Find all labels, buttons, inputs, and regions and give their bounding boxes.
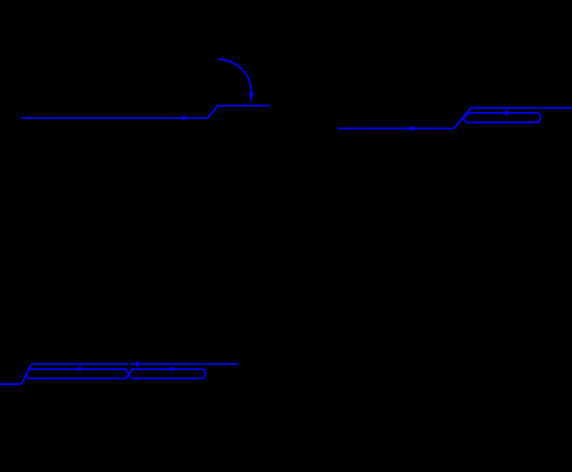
holding loops bottom: weave path top1-cross-bottom2-cap (26, 369, 206, 378)
wire: top-right upper level segment (gap at 540) (471, 107, 572, 109)
wire: top-left cruise segment (21, 117, 208, 119)
dim notch on top-left cruise line (33, 117, 35, 120)
holding loops bottom: weave path bottom1-cross-top2 (26, 369, 202, 378)
wire: top-left upper level segment (218, 105, 270, 107)
wire: top-right approach segment (338, 127, 454, 129)
arrowhead right on top-right approach (410, 126, 419, 131)
holding loop top-right (pointed left end, round right cap) (463, 113, 541, 123)
arrowhead left on bottom loop 1 (74, 366, 81, 371)
arrowhead left on bottom loop 2 (166, 366, 173, 371)
arrowhead right on bottom upper level (136, 361, 143, 366)
wire: bottom incoming segment (0, 383, 21, 385)
wire: top-right climb diagonal (454, 108, 471, 129)
arrowhead right on top-left cruise (182, 115, 189, 120)
wire: bottom upper level segment (gaps at 128.6 and 205.2) (32, 363, 238, 365)
arrowhead down on curved annotation arrow (249, 92, 254, 103)
curved annotation arrow arc (218, 59, 251, 92)
arrowhead left on top-right holding loop (501, 110, 508, 116)
wire: top-left step-climb diagonal (208, 106, 218, 118)
wire: bottom climb diagonal (21, 364, 31, 384)
